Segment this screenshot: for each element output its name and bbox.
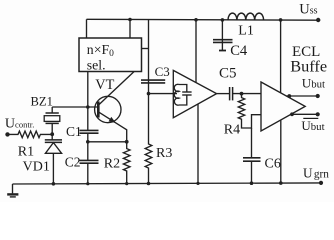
- svg-text:R4: R4: [224, 123, 240, 138]
- op-amp U2 ECL buffer: [261, 82, 305, 131]
- wire box right drop: [129, 20, 131, 39]
- wire amp1 input: [149, 93, 178, 95]
- node C6 ground junction: [250, 181, 254, 185]
- svg-text:Buffe: Buffe: [290, 57, 327, 76]
- varicap VD1: [51, 134, 53, 140]
- svg-text:BZ1: BZ1: [31, 94, 53, 108]
- wire C2 ground lead: [87, 163, 89, 184]
- svg-text:sel.: sel.: [87, 57, 106, 72]
- wire amp1 output: [217, 93, 230, 95]
- resistor R4: [238, 94, 261, 128]
- wire output Ubut: [286, 95, 317, 97]
- svg-text:C1: C1: [66, 124, 82, 139]
- crystal BZ1: [51, 107, 53, 113]
- wire box output stub: [142, 48, 149, 50]
- capacitor C6: [243, 158, 261, 161]
- ground C4 stub: [219, 50, 226, 52]
- block n×F0 selector: [79, 38, 142, 72]
- wire VT base lead: [52, 106, 98, 108]
- wire buffer bottom supply: [280, 120, 282, 183]
- wire amp1 bottom supply: [197, 104, 199, 184]
- wire buffer top supply: [280, 20, 282, 93]
- label Ubut inverted: [303, 117, 318, 119]
- op-amp U1 tuned amplifier: [173, 70, 216, 117]
- node junction top wire box: [128, 18, 132, 22]
- wire bottom ground rail: [13, 183, 322, 184]
- svg-text:C6: C6: [265, 157, 281, 172]
- resistor R2: [123, 142, 130, 184]
- capacitor C3: [141, 80, 165, 83]
- wire C3 branch vertical: [148, 20, 150, 94]
- node R1-VD1-BZ1 junction: [50, 132, 54, 136]
- svg-text:R3: R3: [156, 146, 172, 161]
- capacitor C4: [221, 20, 223, 51]
- svg-text:R2: R2: [104, 156, 120, 171]
- svg-text:VD1: VD1: [23, 160, 50, 175]
- resistor R3: [145, 94, 152, 184]
- node emitter junction: [125, 140, 129, 144]
- capacitor C5: [230, 87, 233, 100]
- node Ucontr terminal: [5, 132, 9, 136]
- transistor VT: [95, 96, 121, 122]
- svg-text:L1: L1: [238, 24, 254, 39]
- inductor tank coil: [174, 84, 179, 105]
- svg-text:R1: R1: [18, 145, 34, 160]
- node base junction: [86, 105, 90, 109]
- inductor L1: [228, 13, 264, 20]
- capacitor C2: [80, 160, 99, 163]
- node Ugrn terminal: [319, 181, 323, 185]
- svg-text:Ubut: Ubut: [302, 75, 325, 90]
- node Uss terminal: [316, 18, 320, 22]
- wire C5 to buffer input: [233, 93, 261, 95]
- wire VT emitter: [98, 112, 126, 142]
- svg-text:C5: C5: [219, 66, 237, 82]
- node amp1 supply junction: [194, 18, 198, 22]
- svg-text:C3: C3: [155, 64, 170, 79]
- ground symbol: [12, 184, 14, 193]
- capacitor tank cap: [179, 85, 187, 106]
- node output tap bottom: [290, 112, 294, 116]
- wire C1-C2 vertical: [87, 133, 89, 160]
- wire output Ubut inverted: [291, 113, 318, 115]
- node R3 ground junction: [147, 182, 151, 186]
- node buffer ground junction: [279, 181, 283, 185]
- node VD1 ground junction: [52, 182, 56, 186]
- wire emitter feedback horizontal: [88, 141, 127, 143]
- wire box left drop: [86, 19, 88, 38]
- wire base-C1 vertical: [87, 72, 89, 131]
- svg-text:Ubut: Ubut: [301, 118, 324, 133]
- svg-text:C4: C4: [230, 43, 248, 59]
- svg-text:C2: C2: [65, 154, 81, 169]
- svg-text:Uss: Uss: [299, 2, 317, 18]
- wire VT collector: [98, 72, 134, 106]
- wire top supply rail: [87, 18, 319, 21]
- svg-text:VT: VT: [95, 77, 114, 93]
- capacitor C1: [80, 130, 99, 133]
- node R4 junction: [240, 92, 244, 96]
- node amp input junction: [147, 92, 151, 96]
- svg-text:Ucontr.: Ucontr.: [5, 116, 34, 131]
- wire amp1 top supply: [195, 20, 197, 83]
- resistor R1: [8, 131, 53, 138]
- node Ubut-inv terminal: [316, 112, 320, 116]
- node output tap top: [287, 94, 291, 98]
- wire C6 ground lead: [251, 161, 253, 183]
- node C1-C2 junction: [86, 140, 90, 144]
- wire C6 branch: [251, 128, 253, 158]
- node Ubut terminal: [316, 94, 320, 98]
- svg-text:Ugrn: Ugrn: [303, 166, 329, 181]
- node buffer supply junction: [279, 18, 283, 22]
